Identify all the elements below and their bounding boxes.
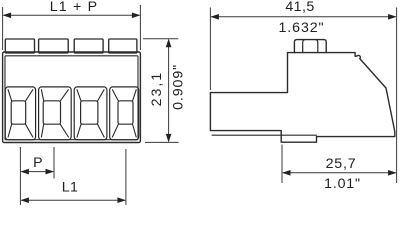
arrowhead 23,1 bottom bbox=[166, 134, 172, 143]
arrowhead L1+P right bbox=[132, 13, 141, 19]
svg-text:P: P bbox=[33, 155, 43, 171]
clamp unit 4 funnel diagonals bbox=[112, 90, 136, 137]
dimension line L1+P bbox=[4, 14, 140, 16]
clamp unit 4 outer bbox=[110, 87, 139, 140]
arrowhead 41,5 left bbox=[210, 14, 219, 20]
svg-text:0.909": 0.909" bbox=[170, 64, 186, 110]
side view body outline bbox=[210, 53, 394, 143]
clamp unit 3 outer bbox=[74, 87, 107, 140]
clamp unit 2 outer bbox=[39, 87, 72, 140]
screw head facet line left bbox=[303, 40, 305, 53]
svg-text:1.632": 1.632" bbox=[279, 20, 325, 36]
extension line bottom of 23,1 bbox=[145, 141, 179, 143]
arrowhead L1+P left bbox=[3, 13, 12, 19]
arrowhead L1 left bbox=[20, 197, 29, 203]
arrowhead P right bbox=[46, 169, 55, 175]
screw head facet line right bbox=[316, 40, 318, 53]
dimension line 23,1 bbox=[168, 40, 170, 142]
svg-text:L1 + P: L1 + P bbox=[50, 0, 99, 15]
extension line top of 23,1 bbox=[143, 38, 178, 40]
side view base inner line bbox=[212, 134, 317, 136]
clamp unit 2 inner square bbox=[43, 101, 60, 124]
front view body inner outline bbox=[5, 56, 138, 140]
extension line right of 41,5 and 25,7 bbox=[396, 8, 398, 184]
svg-text:25,7: 25,7 bbox=[326, 156, 357, 172]
arrowhead L1 right bbox=[117, 197, 126, 203]
extension line right of L1+P bbox=[139, 5, 141, 50]
front view body outer outline bbox=[3, 52, 141, 143]
arrowhead P left bbox=[20, 169, 29, 175]
svg-text:41,5: 41,5 bbox=[285, 0, 314, 15]
pin 4 (front view solder pin) bbox=[109, 39, 137, 53]
clamp unit 2 funnel diagonals bbox=[41, 90, 68, 137]
arrowhead 25,7 right bbox=[388, 170, 397, 176]
clamp unit 1 inner square bbox=[11, 101, 26, 124]
extension line pole4 center bbox=[125, 149, 127, 205]
extension line pole2 center bbox=[53, 147, 55, 179]
arrowhead 25,7 left bbox=[282, 170, 291, 176]
dimension line 41,5 bbox=[211, 16, 395, 18]
clamp unit 4 inner square bbox=[118, 101, 133, 124]
screw head outline bbox=[294, 40, 326, 53]
dimension line L1 bbox=[21, 199, 125, 201]
clamp unit 1 outer bbox=[5, 87, 35, 140]
svg-text:23,1: 23,1 bbox=[149, 71, 165, 107]
svg-text:1.01": 1.01" bbox=[324, 176, 361, 192]
pin 2 (front view solder pin) bbox=[39, 39, 69, 53]
extension line left of 41,5 bbox=[209, 8, 211, 91]
clamp unit 3 funnel diagonals bbox=[77, 90, 104, 137]
extension line pole1 center bbox=[19, 147, 21, 205]
extension line left of 25,7 bbox=[281, 145, 283, 184]
dimension line P bbox=[21, 171, 53, 173]
extension line left of L1+P bbox=[2, 7, 4, 50]
arrowhead 23,1 top bbox=[166, 39, 172, 48]
svg-text:L1: L1 bbox=[62, 180, 79, 196]
clamp unit 3 inner square bbox=[81, 101, 98, 124]
pin 1 (front view solder pin) bbox=[5, 39, 34, 53]
clamp unit 1 funnel diagonals bbox=[8, 90, 33, 137]
arrowhead 41,5 right bbox=[388, 14, 397, 20]
pin 3 (front view solder pin) bbox=[74, 39, 103, 53]
dimension line 25,7 bbox=[283, 172, 396, 174]
